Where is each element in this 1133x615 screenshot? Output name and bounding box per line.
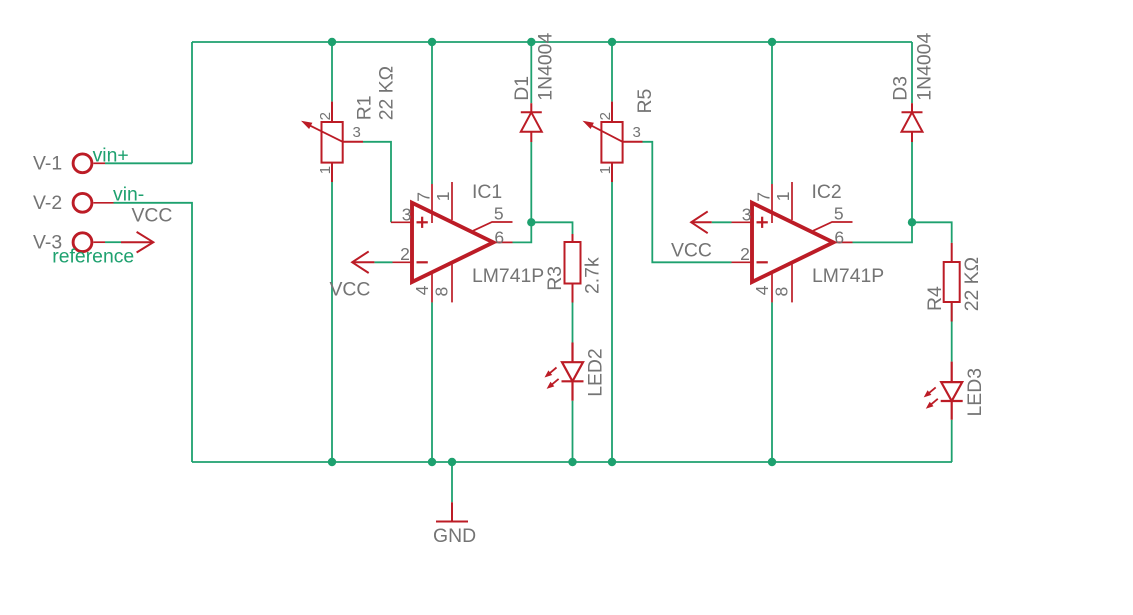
svg-text:3: 3 [742, 204, 752, 224]
svg-text:7: 7 [754, 192, 774, 202]
svg-text:2: 2 [597, 112, 614, 120]
svg-text:IC1: IC1 [472, 181, 502, 203]
svg-text:2: 2 [317, 112, 334, 120]
svg-text:8: 8 [772, 287, 792, 297]
svg-text:LED2: LED2 [585, 348, 607, 397]
svg-text:22 KΩ: 22 KΩ [961, 257, 983, 311]
svg-text:6: 6 [834, 228, 844, 248]
svg-text:reference: reference [52, 246, 134, 268]
svg-text:R5: R5 [634, 89, 656, 114]
svg-text:2: 2 [740, 244, 750, 264]
svg-text:LED3: LED3 [964, 368, 986, 417]
svg-text:R1: R1 [354, 96, 376, 121]
svg-text:1: 1 [317, 166, 334, 174]
svg-text:4: 4 [412, 285, 432, 295]
svg-text:7: 7 [414, 192, 434, 202]
svg-text:V-1: V-1 [33, 153, 62, 175]
svg-text:22 KΩ: 22 KΩ [375, 66, 397, 120]
svg-text:GND: GND [433, 525, 476, 547]
svg-text:2: 2 [400, 244, 410, 264]
svg-text:1: 1 [597, 166, 614, 174]
svg-text:2.7k: 2.7k [582, 257, 604, 294]
svg-text:D1: D1 [511, 76, 533, 101]
svg-text:1: 1 [433, 192, 453, 202]
svg-text:3: 3 [353, 124, 361, 141]
svg-text:R3: R3 [544, 266, 566, 291]
svg-text:LM741P: LM741P [812, 265, 884, 287]
svg-text:1N4004: 1N4004 [535, 33, 557, 101]
svg-text:8: 8 [432, 287, 452, 297]
svg-text:3: 3 [402, 204, 412, 224]
svg-text:D3: D3 [890, 76, 912, 101]
svg-text:IC2: IC2 [812, 181, 842, 203]
svg-text:LM741P: LM741P [472, 265, 544, 287]
svg-text:VCC: VCC [330, 279, 371, 301]
svg-text:VCC: VCC [671, 240, 712, 262]
svg-text:VCC: VCC [132, 205, 173, 227]
svg-text:vin-: vin- [113, 184, 144, 206]
svg-text:5: 5 [834, 203, 844, 223]
svg-text:1: 1 [773, 192, 793, 202]
svg-text:V-2: V-2 [33, 192, 62, 214]
svg-text:1N4004: 1N4004 [914, 33, 936, 101]
svg-text:4: 4 [752, 285, 772, 295]
svg-text:R4: R4 [924, 286, 946, 311]
svg-text:vin+: vin+ [93, 145, 129, 167]
svg-text:5: 5 [494, 203, 504, 223]
svg-text:3: 3 [633, 124, 641, 141]
svg-text:6: 6 [494, 228, 504, 248]
